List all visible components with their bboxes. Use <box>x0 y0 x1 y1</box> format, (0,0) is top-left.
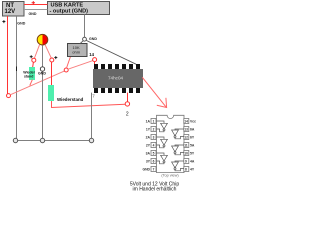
LED lead middle <box>42 45 44 140</box>
pin 13 <box>184 127 189 132</box>
svg-text:stand: stand <box>24 74 33 78</box>
svg-text:5A: 5A <box>190 144 195 148</box>
svg-text:1: 1 <box>153 120 155 124</box>
svg-text:9: 9 <box>185 160 187 164</box>
svg-text:4: 4 <box>153 144 155 148</box>
inverter gate 6 <box>172 129 184 139</box>
pin 10 <box>184 151 189 156</box>
node GND <box>83 37 87 41</box>
wire GND from NT to USB <box>24 9 48 11</box>
LED lead left <box>34 45 39 59</box>
svg-text:5Y: 5Y <box>190 152 195 156</box>
node junction <box>64 68 68 72</box>
svg-text:5: 5 <box>153 152 155 156</box>
wire node to chip pin 2 <box>127 93 129 102</box>
resistor R1 <box>29 67 35 80</box>
node rail right <box>89 138 93 142</box>
wire + from NT to USB <box>24 4 48 6</box>
svg-text:im Handel erhältlich: im Handel erhältlich <box>133 186 177 192</box>
pin 11 <box>184 143 189 148</box>
inverter gate 1 <box>157 121 168 132</box>
node anode left <box>32 58 36 62</box>
svg-text:12: 12 <box>184 136 188 140</box>
ground symbol <box>40 67 44 71</box>
inverter gate 5 <box>172 145 184 155</box>
pin 12 <box>184 135 189 140</box>
label + <box>2 20 5 23</box>
pin 7 <box>151 167 156 172</box>
svg-text:2: 2 <box>126 112 129 118</box>
inverter gate 3 <box>157 153 168 164</box>
svg-text:11: 11 <box>184 144 188 148</box>
pin 8 <box>184 167 189 172</box>
ground rail wire <box>16 140 92 142</box>
svg-text:14: 14 <box>184 120 188 124</box>
svg-text:3A: 3A <box>146 152 151 156</box>
pin labels right <box>190 120 196 172</box>
inverter gate 2 <box>157 137 168 148</box>
wire +12V vertical <box>7 16 9 94</box>
svg-text:7: 7 <box>153 168 155 172</box>
svg-text:GND: GND <box>38 72 46 76</box>
wire junction to pin14 node <box>68 60 94 69</box>
svg-text:3: 3 <box>153 136 155 140</box>
svg-text:GND: GND <box>29 12 37 16</box>
wire node to chip pin 8 <box>86 40 136 64</box>
pin 14 <box>184 119 189 124</box>
wire node to resistor R2 <box>51 62 53 85</box>
svg-text:4A: 4A <box>190 160 195 164</box>
svg-text:3Y: 3Y <box>146 160 151 164</box>
pin 5 <box>151 151 156 156</box>
svg-text:2: 2 <box>153 128 155 132</box>
USB card box <box>48 2 110 15</box>
svg-text:Wiederstand: Wiederstand <box>57 97 84 102</box>
svg-text:4Y: 4Y <box>190 168 195 172</box>
node rail left <box>13 138 17 142</box>
wire 10k to junction <box>67 57 71 69</box>
svg-text:ohm: ohm <box>72 50 80 55</box>
resistor 10K box <box>68 44 88 57</box>
wire R1 to +12V diagonal <box>30 80 33 86</box>
wire NT GND vertical <box>16 16 18 140</box>
svg-text:1A: 1A <box>146 120 151 124</box>
svg-text:6Y: 6Y <box>190 136 195 140</box>
LED lead right <box>45 45 51 59</box>
wire R2 down <box>52 101 126 108</box>
annotation arrow to pinout <box>142 77 166 107</box>
wire node to pin14 <box>94 62 96 65</box>
svg-text:2Y: 2Y <box>146 144 151 148</box>
svg-text:GND: GND <box>142 168 150 172</box>
svg-text:2A: 2A <box>146 136 151 140</box>
node rail middle <box>40 138 44 142</box>
pin 3 <box>151 135 156 140</box>
svg-text:1Y: 1Y <box>146 128 151 132</box>
pin 9 <box>184 159 189 164</box>
svg-text:Vcc: Vcc <box>190 120 196 124</box>
wire USB GND drop <box>84 15 86 38</box>
label + <box>30 55 33 58</box>
svg-text:GND: GND <box>89 37 97 41</box>
pin 4 <box>151 143 156 148</box>
pin numbers right <box>184 120 188 172</box>
LED bicolor <box>37 34 48 45</box>
pin 1 <box>151 119 156 124</box>
pin 6 <box>151 159 156 164</box>
label + <box>54 56 57 59</box>
pinout diagram DIP-14 <box>157 115 185 172</box>
IC U1 74hc04 <box>93 64 143 93</box>
pin 2 <box>151 127 156 132</box>
label + <box>32 1 35 4</box>
svg-text:6: 6 <box>153 160 155 164</box>
power supply NT 12V <box>3 2 25 17</box>
svg-text:13: 13 <box>184 128 188 132</box>
svg-text:10: 10 <box>184 152 188 156</box>
wire chip pin 7 to ground rail <box>91 93 93 140</box>
inverter gate 4 <box>172 161 184 171</box>
pin labels left <box>142 120 150 172</box>
node pin14 <box>93 58 97 62</box>
svg-text:(Top view): (Top view) <box>161 174 179 178</box>
svg-text:GND: GND <box>17 21 25 25</box>
svg-text:12V: 12V <box>5 9 16 15</box>
node on +12V rail <box>7 94 11 98</box>
resistor R2 <box>48 85 54 101</box>
wire diagonal +12V <box>10 70 66 95</box>
chip body outline <box>157 115 185 172</box>
node pin2 <box>125 102 129 106</box>
svg-text:- output (GND): - output (GND) <box>50 9 89 15</box>
pin numbers left <box>153 120 155 172</box>
wire node to 10k <box>80 41 84 44</box>
svg-text:8: 8 <box>185 168 187 172</box>
wire node to resistor R1 <box>32 62 35 67</box>
svg-text:14: 14 <box>89 52 94 57</box>
node anode right <box>50 58 54 62</box>
svg-text:6A: 6A <box>190 128 195 132</box>
svg-text:74hc04: 74hc04 <box>108 76 124 81</box>
